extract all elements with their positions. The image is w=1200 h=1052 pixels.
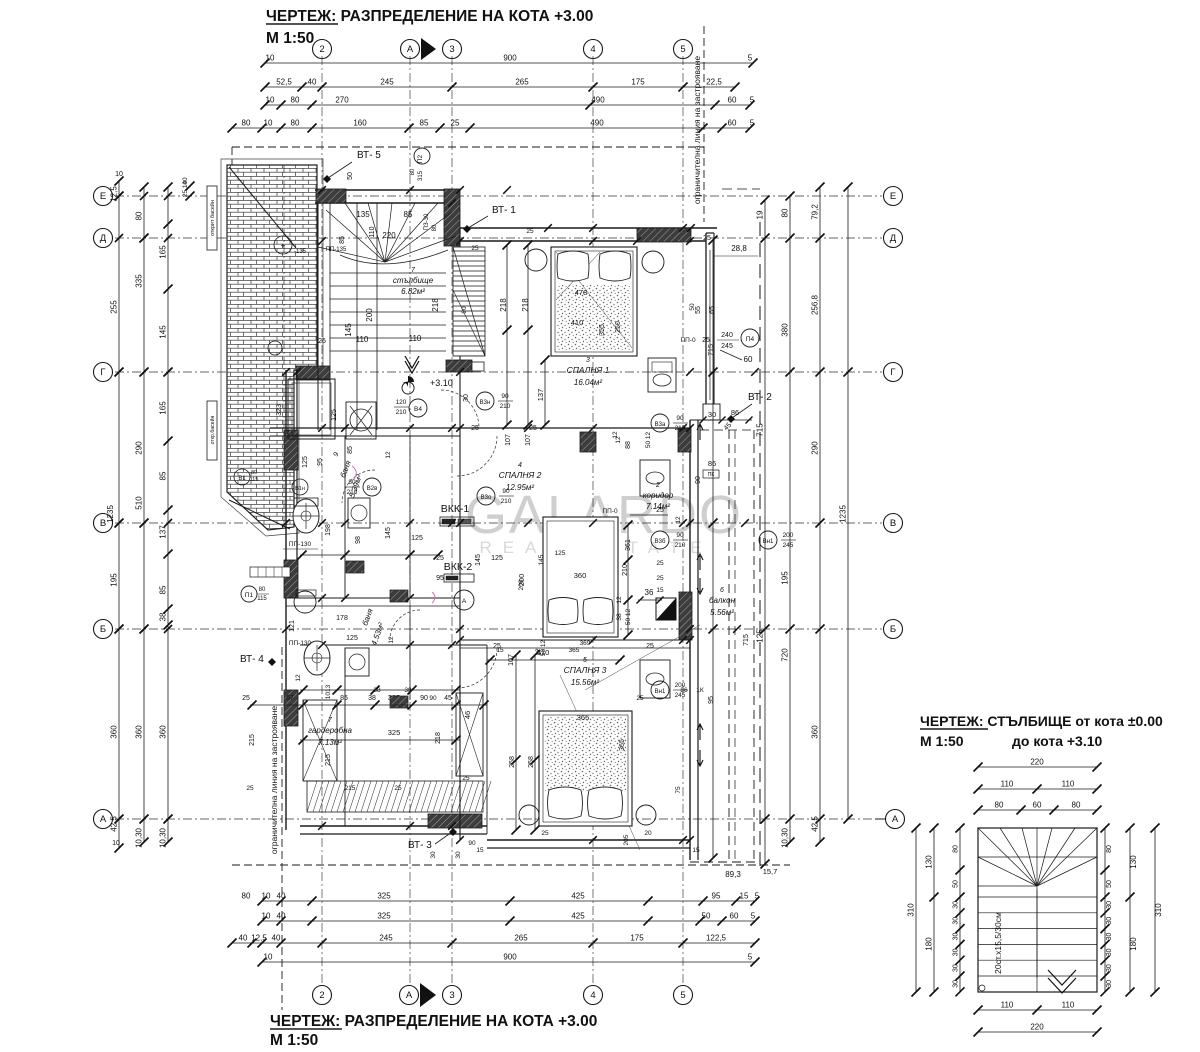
svg-text:245: 245 — [380, 78, 394, 87]
bed1 pillows — [557, 251, 589, 281]
svg-text:ПП-135: ПП-135 — [326, 247, 347, 253]
svg-text:95: 95 — [712, 892, 721, 901]
svg-text:425: 425 — [571, 892, 585, 901]
svg-text:38: 38 — [368, 695, 376, 702]
svg-text:1К: 1К — [696, 687, 704, 694]
svg-text:80: 80 — [781, 208, 790, 217]
wall hatched segment right low — [679, 592, 692, 640]
stair block top wall — [315, 189, 460, 191]
svg-text:25: 25 — [703, 235, 711, 242]
svg-text:50: 50 — [347, 172, 354, 180]
window sill black square — [656, 598, 676, 620]
svg-text:180: 180 — [925, 937, 934, 951]
svg-text:25: 25 — [702, 337, 710, 344]
svg-text:4: 4 — [590, 990, 595, 1001]
svg-text:85: 85 — [404, 210, 413, 219]
interior vertical wall x487 — [486, 645, 488, 834]
axis bubble Б left — [94, 620, 113, 639]
svg-text:410: 410 — [571, 318, 584, 327]
svg-text:80: 80 — [135, 211, 144, 220]
stair treads horizontal — [330, 272, 446, 274]
interior dim line bedroom1 137 — [544, 360, 546, 425]
svg-text:360: 360 — [811, 725, 820, 739]
svg-text:130: 130 — [925, 855, 934, 869]
svg-text:+3.10: +3.10 — [430, 378, 453, 388]
stair detail dim 110-110 bottom — [978, 1009, 1097, 1011]
left wall black segment 1 — [284, 430, 298, 470]
svg-text:СПАЛНЯ 2: СПАЛНЯ 2 — [499, 470, 542, 480]
svg-text:+: + — [281, 241, 286, 250]
svg-text:310: 310 — [907, 903, 916, 917]
roof label box 1 — [207, 186, 217, 250]
svg-text:12,5: 12,5 — [110, 186, 119, 202]
svg-text:2: 2 — [319, 44, 324, 55]
svg-text:Д: Д — [890, 233, 897, 244]
bed 2 — [543, 517, 618, 637]
dimension column left 3 — [167, 187, 169, 842]
mid horizontal wall low — [286, 597, 460, 599]
svg-text:52,5: 52,5 — [276, 78, 292, 87]
svg-text:80: 80 — [242, 119, 251, 128]
dimension column right 2 — [789, 196, 791, 842]
bedside circle right — [642, 251, 664, 273]
bedroom2 side table — [640, 460, 670, 496]
svg-text:ПП-0: ПП-0 — [602, 508, 618, 515]
svg-text:30: 30 — [708, 410, 716, 419]
svg-text:5: 5 — [680, 990, 685, 1001]
interior dim line bath horizontals — [300, 554, 440, 556]
svg-text:40: 40 — [308, 78, 317, 87]
svg-text:180: 180 — [1129, 937, 1138, 951]
svg-text:25: 25 — [318, 338, 326, 345]
svg-text:1235: 1235 — [106, 505, 115, 523]
svg-text:4: 4 — [590, 44, 595, 55]
wall black segment corridor x582 — [580, 432, 596, 452]
stair detail outline — [978, 828, 1097, 992]
dimension row 52.5-40-245-265-175-22.5 — [265, 86, 735, 88]
svg-text:Е: Е — [890, 191, 896, 202]
svg-text:360: 360 — [110, 725, 119, 739]
svg-text:86: 86 — [708, 459, 716, 468]
svg-text:125: 125 — [491, 555, 503, 562]
svg-text:П2: П2 — [417, 154, 424, 163]
toilet bath2 — [304, 641, 330, 675]
svg-text:900: 900 — [503, 953, 517, 962]
door arc wardrobe — [390, 610, 420, 640]
svg-text:80: 80 — [1106, 845, 1113, 853]
svg-text:361: 361 — [625, 539, 632, 551]
svg-text:коридор: коридор — [643, 491, 674, 500]
svg-text:107: 107 — [505, 434, 512, 446]
svg-text:200: 200 — [518, 579, 525, 590]
boundary dashes top-left — [232, 146, 704, 148]
dimension row 325-425-50-60 bottom — [262, 920, 755, 922]
svg-text:720: 720 — [781, 648, 790, 662]
svg-text:365: 365 — [569, 647, 580, 654]
bedroom3 desk right — [640, 660, 670, 698]
door arc bedroom2 — [457, 436, 497, 476]
svg-text:95: 95 — [436, 575, 444, 582]
svg-text:ВТ- 4: ВТ- 4 — [240, 654, 264, 665]
sink bath2 — [294, 591, 316, 613]
svg-text:290: 290 — [135, 441, 144, 455]
svg-text:250: 250 — [615, 321, 622, 333]
svg-text:15: 15 — [476, 847, 484, 854]
svg-text:245: 245 — [721, 343, 733, 350]
boundary line left with label — [281, 647, 283, 1010]
shower square with cross — [346, 402, 376, 439]
svg-text:256,8: 256,8 — [811, 294, 820, 315]
svg-text:10: 10 — [266, 54, 275, 63]
svg-text:10: 10 — [112, 840, 120, 847]
svg-text:325: 325 — [388, 728, 401, 737]
svg-text:В2в: В2в — [367, 486, 378, 492]
roof hatched band — [227, 165, 317, 530]
svg-text:115: 115 — [257, 596, 267, 602]
svg-text:125: 125 — [411, 535, 423, 542]
svg-text:60: 60 — [728, 96, 737, 105]
svg-text:125: 125 — [555, 550, 566, 557]
wall black segment bath top — [296, 366, 330, 380]
svg-text:80: 80 — [251, 470, 257, 476]
stair down arrow — [405, 356, 419, 373]
stairwell left shaft walls — [317, 203, 319, 430]
interior tick marks — [318, 186, 326, 194]
svg-text:218: 218 — [521, 298, 530, 312]
svg-text:210: 210 — [675, 542, 686, 549]
bed3 blanket speckle — [545, 717, 626, 792]
svg-text:1013: 1013 — [325, 684, 332, 699]
svg-text:5: 5 — [680, 44, 685, 55]
svg-text:Г: Г — [890, 367, 895, 378]
bath interior wall — [344, 436, 346, 598]
svg-text:до кота +3.10: до кота +3.10 — [1012, 733, 1103, 749]
svg-text:195: 195 — [110, 573, 119, 587]
svg-text:П4: П4 — [746, 336, 755, 343]
svg-text:120: 120 — [396, 399, 407, 406]
svg-text:Д: Д — [100, 233, 107, 244]
svg-text:30: 30 — [953, 964, 960, 972]
dimension column left outer — [118, 181, 120, 848]
axis bubble 5 bottom — [674, 986, 693, 1005]
svg-text:490: 490 — [590, 119, 604, 128]
bedroom3 curtain lines — [560, 625, 700, 850]
roof label box 2 — [207, 401, 217, 460]
svg-text:В3а: В3а — [655, 422, 666, 428]
svg-text:107: 107 — [525, 434, 532, 446]
svg-text:310: 310 — [1154, 903, 1163, 917]
bathtub bath1 — [288, 379, 335, 439]
svg-text:240: 240 — [721, 332, 733, 339]
svg-text:160: 160 — [353, 119, 367, 128]
svg-text:80: 80 — [291, 119, 300, 128]
svg-text:ВТ- 1: ВТ- 1 — [492, 205, 516, 216]
stair detail right dim 130-180 — [1129, 828, 1131, 992]
interior dim line wardrobe 325 — [250, 704, 487, 706]
bedroom1 left window lines — [459, 228, 461, 241]
svg-text:135: 135 — [356, 210, 370, 219]
stair detail dim 220 bottom — [978, 1031, 1097, 1033]
svg-text:80: 80 — [291, 96, 300, 105]
svg-text:ограничителна линия на застроя: ограничителна линия на застрояване — [692, 56, 702, 204]
interior vertical wall x460 — [459, 241, 461, 840]
svg-text:5: 5 — [755, 892, 760, 901]
svg-text:90: 90 — [501, 393, 509, 400]
svg-text:25: 25 — [471, 245, 479, 252]
svg-text:200: 200 — [365, 308, 374, 322]
svg-text:Б: Б — [100, 624, 106, 635]
svg-text:25: 25 — [541, 830, 549, 837]
bedside circle left — [525, 249, 547, 271]
svg-text:В: В — [890, 518, 896, 529]
stair detail winder fan — [978, 828, 1037, 886]
svg-text:130: 130 — [1129, 855, 1138, 869]
svg-text:45: 45 — [444, 695, 452, 702]
svg-text:290: 290 — [811, 441, 820, 455]
bed 3 — [539, 711, 632, 826]
door arc bedroom3 — [457, 648, 497, 688]
svg-text:200: 200 — [783, 532, 794, 539]
svg-text:А: А — [462, 598, 467, 605]
svg-text:М 1:50: М 1:50 — [920, 733, 964, 749]
svg-text:80: 80 — [953, 845, 960, 853]
svg-text:110: 110 — [409, 334, 422, 343]
svg-text:85: 85 — [159, 471, 168, 480]
stair detail center line — [1036, 828, 1038, 992]
svg-text:245: 245 — [379, 934, 393, 943]
svg-text:165: 165 — [159, 245, 168, 259]
axis end ticks left plan — [115, 192, 123, 200]
svg-text:ЧЕРТЕЖ: РАЗПРЕДЕЛЕНИЕ НА КОТА: ЧЕРТЕЖ: РАЗПРЕДЕЛЕНИЕ НА КОТА +3.00 — [270, 1013, 597, 1030]
dimension row 900 top — [265, 62, 753, 64]
level mark +3.10 — [402, 382, 414, 394]
svg-text:175: 175 — [631, 78, 645, 87]
svg-text:10: 10 — [262, 892, 271, 901]
bed1 blanket speckle — [557, 285, 631, 350]
interior dim line corridor 510 — [487, 659, 622, 661]
svg-text:145: 145 — [159, 325, 168, 339]
svg-text:4: 4 — [518, 462, 522, 469]
svg-text:50: 50 — [702, 912, 711, 921]
door arc corridor — [441, 390, 479, 428]
svg-text:355: 355 — [599, 324, 606, 336]
dimension row 80-160-85-25-490-60 — [232, 127, 750, 129]
svg-text:79,2: 79,2 — [811, 204, 820, 220]
svg-text:38: 38 — [373, 687, 381, 694]
svg-text:85: 85 — [339, 236, 346, 244]
balcony bottom corner — [690, 861, 760, 863]
stair detail right risers dims — [1104, 828, 1106, 992]
P2 circle — [414, 148, 430, 164]
svg-text:245: 245 — [783, 542, 794, 549]
axis bubble Е right — [884, 187, 903, 206]
svg-text:3: 3 — [449, 990, 454, 1001]
svg-text:10: 10 — [115, 171, 123, 178]
boundary line right with label — [703, 26, 705, 222]
svg-text:265: 265 — [515, 78, 529, 87]
dimension row 80-270-490-60 — [265, 104, 750, 106]
dimension column right 3 — [819, 187, 821, 842]
svg-text:откр.басейн: откр.басейн — [209, 416, 216, 445]
svg-text:-135: -135 — [294, 249, 307, 255]
stair detail winder horizontal — [978, 856, 1097, 858]
svg-text:12: 12 — [535, 648, 542, 656]
svg-text:42,5: 42,5 — [110, 816, 119, 832]
axis bubble Д left — [94, 229, 113, 248]
svg-text:5: 5 — [750, 96, 755, 105]
svg-text:360: 360 — [135, 725, 144, 739]
svg-text:255: 255 — [110, 300, 119, 314]
svg-text:12: 12 — [388, 636, 395, 644]
svg-text:210: 210 — [501, 498, 512, 505]
svg-text:СПАЛНЯ 3: СПАЛНЯ 3 — [564, 665, 607, 675]
door pink swing — [352, 466, 356, 480]
svg-text:98: 98 — [355, 536, 362, 544]
svg-text:25: 25 — [242, 695, 250, 702]
svg-text:360: 360 — [159, 725, 168, 739]
boundary line bottom — [232, 864, 790, 866]
svg-text:86: 86 — [731, 408, 739, 417]
svg-text:10: 10 — [262, 912, 271, 921]
wardrobe floor hatch strip — [307, 781, 483, 812]
svg-text:10: 10 — [264, 119, 273, 128]
B4 circle — [409, 399, 427, 417]
axis bubble Б right — [884, 620, 903, 639]
svg-text:20ст.х15,5/30см: 20ст.х15,5/30см — [993, 912, 1003, 974]
svg-text:40: 40 — [239, 934, 248, 943]
svg-text:25: 25 — [246, 785, 254, 792]
svg-text:В4: В4 — [414, 406, 422, 413]
svg-text:90: 90 — [420, 695, 428, 702]
svg-text:5: 5 — [750, 119, 755, 128]
stair flight hatched band right — [453, 247, 485, 356]
axis bubble 2 bottom — [313, 986, 332, 1005]
svg-text:В3б: В3б — [655, 539, 666, 545]
svg-text:40: 40 — [277, 912, 286, 921]
svg-text:30: 30 — [953, 917, 960, 925]
B3b circle — [651, 531, 669, 549]
svg-text:198: 198 — [325, 524, 332, 536]
svg-text:125: 125 — [331, 409, 338, 421]
svg-text:478: 478 — [575, 288, 588, 297]
svg-text:ВКК-2: ВКК-2 — [444, 561, 473, 573]
svg-text:365: 365 — [619, 739, 626, 751]
svg-text:25: 25 — [462, 775, 470, 782]
wall hatched segment right mid — [678, 428, 691, 452]
svg-text:ВКК-1: ВКК-1 — [441, 503, 470, 515]
svg-text:А: А — [406, 990, 413, 1001]
svg-text:30: 30 — [953, 901, 960, 909]
svg-text:6: 6 — [720, 587, 724, 594]
stair detail right dim 310 — [1154, 828, 1156, 992]
svg-text:115: 115 — [250, 477, 259, 483]
svg-text:30: 30 — [455, 851, 462, 859]
svg-text:50: 50 — [1106, 880, 1113, 888]
svg-text:90: 90 — [429, 695, 437, 702]
svg-text:П1: П1 — [245, 592, 254, 599]
axis bubble А left — [94, 810, 113, 829]
axis bubble 3 top — [443, 40, 462, 59]
svg-text:85: 85 — [420, 119, 429, 128]
svg-text:ПП-0: ПП-0 — [680, 337, 696, 344]
svg-text:425: 425 — [571, 912, 585, 921]
svg-text:10,30: 10,30 — [135, 827, 144, 848]
Bn1 circle — [651, 681, 669, 699]
svg-text:110: 110 — [356, 335, 369, 344]
svg-text:210: 210 — [500, 403, 511, 410]
svg-text:30: 30 — [1106, 917, 1113, 925]
wardrobe closet right — [456, 693, 483, 776]
svg-text:67: 67 — [286, 695, 294, 702]
svg-text:15: 15 — [740, 892, 749, 901]
svg-text:205: 205 — [623, 834, 630, 845]
svg-text:2: 2 — [319, 990, 324, 1001]
svg-text:3: 3 — [449, 44, 454, 55]
balcony dashed double rail — [728, 430, 730, 862]
svg-text:5: 5 — [748, 953, 753, 962]
axis bubble В left — [94, 514, 113, 533]
svg-text:86: 86 — [680, 687, 688, 694]
svg-text:89,3: 89,3 — [725, 870, 741, 879]
bed2 pillows — [548, 598, 578, 625]
bed3 pillows — [548, 787, 583, 819]
svg-text:ограничителна линия на застроя: ограничителна линия на застрояване — [269, 706, 279, 854]
axis bubble 2 top — [313, 40, 332, 59]
svg-text:22,5: 22,5 — [706, 78, 722, 87]
svg-text:137: 137 — [536, 389, 545, 402]
svg-text:145: 145 — [344, 323, 353, 337]
left outer wall upper — [285, 370, 287, 560]
bed 1 — [551, 247, 637, 356]
svg-text:165: 165 — [159, 401, 168, 415]
svg-text:65: 65 — [709, 306, 716, 314]
bedroom2-3 divider wall — [460, 639, 690, 641]
svg-text:215: 215 — [325, 754, 332, 766]
svg-text:30: 30 — [953, 933, 960, 941]
svg-text:90: 90 — [676, 415, 684, 422]
svg-text:Вн1: Вн1 — [763, 539, 774, 545]
svg-text:175: 175 — [630, 934, 644, 943]
B1v circle — [292, 479, 308, 495]
svg-text:270: 270 — [335, 96, 349, 105]
stair detail left risers dims — [959, 828, 961, 992]
B3a circle — [651, 414, 669, 432]
svg-text:90: 90 — [468, 840, 476, 847]
axis bubble A top — [401, 40, 420, 59]
svg-text:220: 220 — [1030, 1023, 1044, 1032]
bath fixtures mid — [348, 498, 370, 528]
svg-text:36: 36 — [645, 588, 654, 597]
svg-text:10,30: 10,30 — [781, 827, 790, 848]
stair fan winders — [318, 247, 385, 262]
svg-text:50: 50 — [953, 880, 960, 888]
svg-text:10: 10 — [264, 953, 273, 962]
axis lines horizontal — [115, 195, 882, 197]
svg-text:Вн1: Вн1 — [655, 689, 666, 695]
svg-text:38: 38 — [404, 687, 412, 694]
bottom wall black segment — [428, 814, 482, 828]
svg-text:15: 15 — [692, 847, 700, 854]
svg-text:15,7: 15,7 — [763, 867, 778, 876]
svg-text:323: 323 — [276, 404, 283, 416]
svg-text:110: 110 — [1062, 1001, 1075, 1010]
svg-text:1235: 1235 — [839, 505, 848, 523]
sink cross circle bath1 — [301, 511, 311, 521]
P1 circle left — [241, 586, 257, 602]
svg-text:30: 30 — [1106, 933, 1113, 941]
svg-text:210: 210 — [396, 409, 407, 416]
svg-text:195: 195 — [781, 571, 790, 585]
